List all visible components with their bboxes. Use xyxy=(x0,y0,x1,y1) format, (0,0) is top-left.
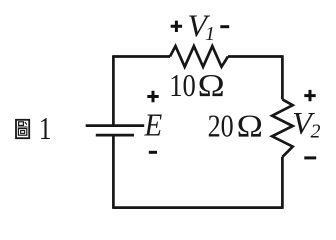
svg-text:1: 1 xyxy=(39,111,52,146)
svg-text:Ω: Ω xyxy=(237,108,263,143)
svg-text:2: 2 xyxy=(311,121,321,143)
svg-text:Ω: Ω xyxy=(198,68,225,103)
svg-text:1: 1 xyxy=(205,23,215,45)
svg-text:10: 10 xyxy=(169,68,196,103)
svg-text:20: 20 xyxy=(208,108,234,143)
svg-text:E: E xyxy=(144,107,163,143)
